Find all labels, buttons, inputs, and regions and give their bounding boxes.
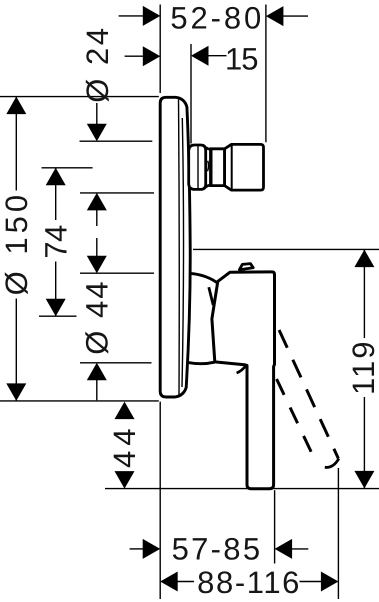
- svg-text:15: 15: [225, 41, 257, 76]
- handle dome top arc: [190, 273, 218, 283]
- small cylinder edge line: [211, 149, 213, 186]
- spout groove crescent: [208, 161, 209, 171]
- dashed lever open position: upper edge: [279, 330, 338, 459]
- dim line 74 x=55.7: [55, 168, 57, 220]
- dashed lever open position: end cap: [325, 459, 339, 468]
- arrow 88-116 right (points right): [321, 572, 339, 592]
- ext line spout axis y=167.8: [42, 167, 93, 169]
- arrow 119 top (points up): [354, 250, 374, 268]
- dim line 44 lower tail x=96.8: [96, 380, 98, 400]
- arrow 150 top (points up): [6, 97, 26, 115]
- svg-text:Ø 24: Ø 24: [80, 25, 115, 102]
- ext line plate bottom y=400.9: [0, 400, 159, 402]
- ext line pipe bottom y=192.9: [80, 192, 154, 194]
- ext line valve axis y=316.2: [39, 315, 77, 317]
- ext line lever bottom y=488.6: [105, 488, 379, 490]
- dim line lever tip x=338.4: [337, 468, 339, 599]
- tail arrow 88-116 right: [300, 581, 322, 583]
- spout neck bottom profile: [206, 185, 211, 187]
- dim line pipe end x=265.9: [265, 5, 267, 143]
- arrow 57-85 right (points left): [275, 539, 293, 559]
- plate inner rim line B: [182, 118, 184, 387]
- tail arrow 15 left: [125, 55, 144, 57]
- dim line 15 x=191: [190, 44, 192, 144]
- arrow 44 lower (points up): [87, 363, 107, 381]
- dim line 150 x=16.3: [15, 97, 17, 191]
- arrow 24 top (points down): [87, 124, 107, 142]
- tail arrow 15 right: [208, 55, 227, 57]
- arrow 150 bottom (points down): [6, 383, 26, 401]
- dim line handle front x=274.6: [274, 490, 276, 563]
- arrow 44b top (points up): [115, 402, 135, 420]
- spout neck top profile: [206, 147, 211, 149]
- handle head and lever outline: [212, 272, 275, 489]
- arrow 52-80 left (points right): [143, 6, 161, 26]
- svg-text:52-80: 52-80: [170, 0, 264, 35]
- tail arrow 52-80 right: [283, 15, 308, 17]
- svg-text:44: 44: [107, 424, 142, 468]
- spout connector bulge: [189, 145, 206, 189]
- svg-text:57-85: 57-85: [172, 532, 263, 567]
- spout chamfer + nut cylinder: [225, 144, 264, 190]
- ext line pipe top y=141.2: [80, 140, 153, 142]
- tail arrow 57-85 right: [291, 548, 308, 550]
- svg-text:Ø 150: Ø 150: [0, 191, 34, 295]
- dashed lever open position: lower edge: [277, 379, 317, 463]
- svg-text:88-116: 88-116: [197, 565, 301, 600]
- arrow 74 bottom (points down): [46, 299, 66, 317]
- tail arrow 52-80 left: [119, 15, 144, 17]
- svg-text:119: 119: [346, 340, 379, 395]
- spout small cylinder: [211, 149, 225, 186]
- arrow 15 left (points right): [143, 46, 161, 66]
- dashed lever pivot dash: [209, 287, 213, 305]
- ext line handle top y=249.4: [193, 248, 379, 250]
- tail arrow 88-116 left: [177, 581, 194, 583]
- dim line 24 leader x=96.8: [96, 103, 98, 125]
- handle dome bottom arc: [188, 362, 214, 364]
- lever base spur (open lever edge near pivot): [237, 365, 247, 373]
- dim line wall plane x=160.2 top: [159, 5, 161, 94]
- svg-text:74: 74: [38, 225, 73, 259]
- arrow 88-116 left (points left): [160, 572, 178, 592]
- arrow 74 top (points up): [46, 168, 66, 186]
- dim line wall plane x=160.2 bottom: [159, 402, 161, 599]
- arrow 24 bottom / 44 top (points up): [87, 193, 107, 211]
- tail arrow 57-85 left: [130, 548, 144, 550]
- arrow 119 bottom (points down): [354, 471, 374, 489]
- ext line dome bottom y=362.8: [80, 362, 152, 364]
- dim line 24-44 mid tails x=96.8: [96, 210, 98, 226]
- escutcheon plate outline: [160, 97, 190, 397]
- arrow 52-80 right (points left): [266, 6, 284, 26]
- arrow 44b bottom (points down): [115, 471, 135, 489]
- dashed lever tab (up position end): [239, 264, 253, 270]
- ext line dome top y=273.2: [80, 272, 154, 274]
- plate inner rim line A: [178, 100, 181, 395]
- dim line 119 x=364.4: [363, 250, 365, 338]
- arrow 57-85 left (points right): [143, 539, 161, 559]
- bulge inner edge line: [197, 146, 199, 188]
- arrow 44 upper (points down): [87, 256, 107, 274]
- arrow 15 right (points left): [191, 46, 209, 66]
- nut edge line: [231, 144, 233, 190]
- svg-text:Ø 44: Ø 44: [80, 279, 115, 354]
- ext line plate top y=96.6: [0, 96, 159, 98]
